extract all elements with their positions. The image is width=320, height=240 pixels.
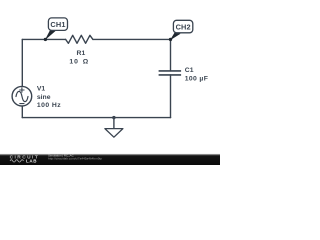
voltage source V1	[12, 86, 32, 106]
ground	[105, 116, 123, 137]
svg-text:CH2: CH2	[176, 22, 191, 31]
wire left branch upper	[21, 39, 23, 86]
label R1 value	[69, 50, 89, 65]
logo CircuitLab	[10, 155, 40, 164]
label V1 value	[37, 86, 61, 110]
svg-text:sine: sine	[37, 94, 51, 101]
capacitor C1	[159, 71, 182, 75]
svg-text:100 Hz: 100 Hz	[37, 102, 61, 109]
wire bottom rail	[22, 117, 170, 119]
wire top rail right segment	[93, 38, 171, 40]
wire left branch lower	[21, 106, 23, 118]
label C1 value	[185, 67, 208, 82]
svg-text:C1: C1	[185, 67, 194, 74]
wire top rail left segment	[22, 38, 65, 40]
node CH1	[44, 18, 68, 41]
svg-text:LAB: LAB	[26, 159, 37, 164]
node CH2	[169, 20, 193, 41]
resistor R1	[66, 35, 93, 43]
wire right branch lower	[170, 75, 172, 118]
svg-text:100 µF: 100 µF	[185, 75, 208, 82]
svg-text:10 Ω: 10 Ω	[69, 58, 89, 65]
svg-text:V1: V1	[37, 86, 46, 93]
svg-text:http://circuitlab.com/c/7a445a: http://circuitlab.com/c/7a445a4b4bm9tp	[48, 157, 102, 161]
svg-text:R1: R1	[77, 50, 86, 57]
svg-text:CH1: CH1	[50, 20, 65, 29]
wire right branch upper	[170, 39, 172, 71]
